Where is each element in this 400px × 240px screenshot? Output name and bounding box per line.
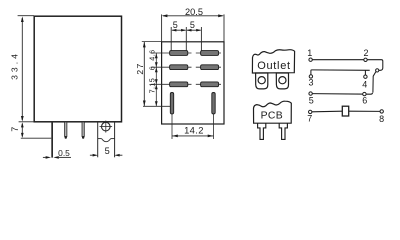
pin number labels bbox=[307, 48, 384, 124]
dimension 20.5 bbox=[162, 14, 224, 41]
relay body left view bbox=[34, 16, 121, 122]
outlet body blob bbox=[252, 50, 294, 73]
node 6 bbox=[363, 92, 366, 95]
svg-text:7.15: 7.15 bbox=[147, 78, 156, 94]
svg-text:2: 2 bbox=[363, 48, 368, 58]
dimension 7 (pin length) bbox=[21, 124, 52, 139]
svg-text:0.5: 0.5 bbox=[58, 148, 70, 158]
pin row2 right blade bbox=[201, 65, 219, 70]
pin4 stub bbox=[364, 70, 366, 75]
svg-text:14.2: 14.2 bbox=[184, 125, 204, 136]
dimension 14.2 bbox=[172, 125, 214, 138]
svg-text:5: 5 bbox=[173, 20, 178, 30]
pcb pin right bbox=[279, 123, 287, 139]
pin row line 2 bbox=[151, 66, 192, 68]
coil bbox=[342, 106, 348, 116]
vertical coil pin right bbox=[212, 93, 215, 140]
pin 2 of side view bbox=[65, 122, 67, 139]
relay body bottom view bbox=[162, 42, 224, 124]
node 5 bbox=[309, 92, 312, 95]
svg-text:8: 8 bbox=[379, 114, 384, 124]
dimension 27 bbox=[135, 42, 146, 107]
svg-text:7: 7 bbox=[307, 114, 312, 124]
node 2 bbox=[364, 58, 367, 61]
svg-text:20.5: 20.5 bbox=[185, 7, 203, 17]
svg-text:6: 6 bbox=[362, 96, 367, 106]
dimension 0.5 (pin thickness) bbox=[43, 148, 71, 159]
wire row3 pins 5-6 bbox=[312, 93, 372, 94]
pcb pin left bbox=[258, 123, 266, 139]
svg-text:5: 5 bbox=[105, 146, 110, 156]
armature pivot bbox=[376, 69, 379, 72]
node 8 bbox=[380, 110, 383, 113]
pin row1 right blade bbox=[201, 51, 219, 56]
svg-text:5: 5 bbox=[309, 95, 314, 105]
pcb body blob bbox=[254, 101, 292, 123]
pin row3 left blade bbox=[170, 82, 188, 87]
svg-text:PCB: PCB bbox=[261, 110, 283, 121]
dimension 33.4 bbox=[18, 16, 34, 122]
svg-text:3: 3 bbox=[308, 77, 313, 87]
svg-text:27: 27 bbox=[135, 62, 145, 74]
armature bbox=[373, 72, 376, 93]
pin row3 right blade bbox=[201, 82, 219, 87]
vertical coil pin left bbox=[170, 93, 173, 140]
node 7 bbox=[309, 110, 312, 113]
svg-text:7: 7 bbox=[10, 127, 20, 132]
svg-text:4.6: 4.6 bbox=[147, 49, 156, 60]
svg-text:4: 4 bbox=[362, 79, 367, 89]
mounting boss with crosshair bbox=[98, 121, 115, 158]
dimensions 5 , 5 (pin column pitch) bbox=[171, 27, 201, 51]
pin (long thin quick-connect tab) bbox=[51, 122, 53, 158]
svg-text:33.4: 33.4 bbox=[9, 51, 19, 80]
pin terminal circles bbox=[309, 58, 384, 114]
svg-text:6: 6 bbox=[147, 66, 156, 70]
dimension chain 4.6 / 6 / 7.15 bbox=[142, 42, 162, 107]
pin row line 3 bbox=[151, 83, 192, 85]
svg-text:5: 5 bbox=[190, 20, 195, 30]
wire coil to pin8 bbox=[349, 110, 380, 112]
node 3 bbox=[309, 75, 312, 78]
svg-text:Outlet: Outlet bbox=[257, 60, 291, 72]
wire row4 pin7 to coil bbox=[312, 110, 342, 113]
pin row line 1 bbox=[151, 52, 192, 54]
pin 3 of side view bbox=[82, 122, 84, 139]
node 1 bbox=[309, 58, 312, 61]
outlet tab terminal right bbox=[276, 73, 288, 89]
node 4 bbox=[364, 75, 367, 78]
pin row2 left blade bbox=[170, 65, 188, 70]
bottom tick line for chain bbox=[143, 105, 170, 107]
svg-text:1: 1 bbox=[307, 48, 312, 58]
pin row1 left blade bbox=[170, 51, 188, 56]
wire row1 pins 1-2 bbox=[312, 60, 383, 71]
outlet tab terminal left bbox=[256, 73, 268, 89]
dimension 5 (boss width) bbox=[90, 146, 123, 157]
wire row2 pins 3-4 bbox=[311, 70, 370, 75]
